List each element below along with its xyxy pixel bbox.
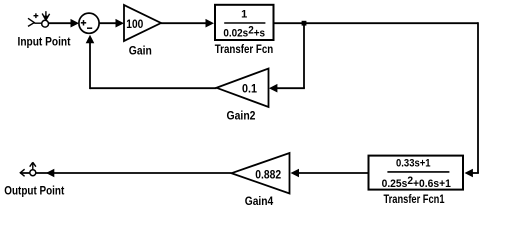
svg-text:0.02s2+s: 0.02s2+s <box>223 24 265 39</box>
svg-text:0.25s2+0.6s+1: 0.25s2+0.6s+1 <box>382 175 451 190</box>
svg-text:Gain4: Gain4 <box>245 194 274 208</box>
svg-text:1: 1 <box>241 9 247 21</box>
svg-text:Transfer Fcn: Transfer Fcn <box>215 42 274 56</box>
svg-text:0.33s+1: 0.33s+1 <box>396 158 431 170</box>
svg-text:0.882: 0.882 <box>255 169 281 181</box>
svg-text:100: 100 <box>126 19 143 31</box>
svg-text:0.1: 0.1 <box>242 83 258 95</box>
svg-text:Input Point: Input Point <box>18 35 71 49</box>
svg-text:Transfer Fcn1: Transfer Fcn1 <box>384 192 445 206</box>
svg-text:Gain2: Gain2 <box>227 109 256 123</box>
svg-text:Output Point: Output Point <box>4 184 64 198</box>
svg-text:Gain: Gain <box>129 43 152 57</box>
